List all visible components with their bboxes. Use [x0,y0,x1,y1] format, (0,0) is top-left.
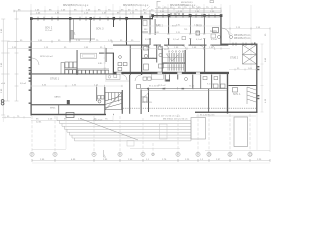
dim line y=28.5 right margin [222,27,270,30]
svg-text:M5/10/5X3,5 cm n.g.v.: M5/10/5X3,5 cm n.g.v. [123,3,149,7]
bottom edge faint line [32,162,270,164]
door opening end ticks [149,34,206,39]
corridor walls x=133,141 [122,90,123,114]
dimension ticks top [14,8,221,16]
stair side walls [162,48,163,72]
wall step connector [152,15,153,19]
small fixture top right [196,31,200,35]
wall y=53 kitchen top [99,53,114,54]
svg-text:6,3 m2: 6,3 m2 [211,39,218,41]
kitchen left wall x=77 [76,50,79,75]
wall x=130 [129,45,132,75]
top annotation leader lines [146,6,233,35]
text specks row under middle rooms [149,86,195,88]
svg-text:SOV. 3: SOV. 3 [96,28,104,31]
lower-left interior: wall x=90.8 [95,87,98,101]
svg-text:M5 3/16x1 1/2" c/c 60 cm n.g.: M5 3/16x1 1/2" c/c 60 cm n.g.v. [150,116,181,118]
staircase [163,53,184,71]
svg-text:5,2 m2: 5,2 m2 [173,39,180,41]
deck horizontal lines [57,117,191,141]
stair mid wall [163,63,185,64]
dimension numbers top row2 [36,11,215,15]
left margin dim text [1,28,3,93]
svg-text:INNG.: INNG. [50,108,56,110]
window ticks on y44 wall [233,43,255,46]
svg-text:WC: WC [144,29,148,31]
top-right wall inner line [153,16,220,18]
deck right rectangle [234,117,248,147]
top small symbol [157,1,214,8]
fixture near top right [213,28,219,33]
dim ticks left of building [2,116,31,118]
dimension text below bottom wall left [36,119,108,124]
vestibule fixtures [137,85,148,103]
gap highlights in band [158,72,163,74]
svg-text:12.61: 12.61 [36,122,42,124]
svg-text:3,9 m2: 3,9 m2 [145,39,152,41]
hall line y=81 [105,80,130,82]
svg-text:9,8 m2: 9,8 m2 [20,83,27,85]
baluster dashed strip [123,107,256,109]
WC room by hall [106,74,120,79]
dining table [81,53,97,58]
kitchen fixtures [61,62,109,74]
svg-text:13,2 m2: 13,2 m2 [158,85,166,87]
mid dimension row right half [130,47,230,50]
fixture room 142-148 [143,21,147,26]
stair hatch bottom right [247,87,256,104]
svg-text:V.F. TERR.: V.F. TERR. [142,102,153,104]
svg-text:95 1.15 55: 95 1.15 55 [149,86,160,88]
interior dim row y=26 [143,25,220,27]
door gaps y45 wall [150,44,154,46]
bottom dimension line [32,159,270,162]
interior dim row y=33.5 [142,32,220,35]
svg-text:KJK.: KJK. [98,63,103,65]
grid bubbles bottom row [30,152,252,156]
exterior wall: top left section [31,18,153,19]
deck diagonal [80,119,138,141]
svg-text:15,2 m2: 15,2 m2 [45,30,53,32]
stairwell wall x129 [129,75,130,114]
svg-text:WC: WC [164,49,168,51]
svg-text:SOV. 1: SOV. 1 [233,93,241,96]
wall stub x=113.5 [113,19,114,27]
stair block lower left [105,93,122,110]
window marks on left wall [29,47,32,104]
rooms below mid band [152,74,221,89]
wall x=221 to 227 upper connector [220,45,228,46]
exterior wall: top right section [152,15,222,16]
closet fill [70,30,73,39]
right margin rotated dims [265,33,267,103]
interior dimension row y=41.5 [8,40,140,43]
bottom dim numbers [40,159,262,161]
vestibule wall x=148.5 [148,89,149,112]
bottom-right fixtures [214,84,238,92]
small step rect deck right end [127,141,134,147]
middle rooms vertical walls [141,15,222,75]
svg-text:95 1.45 95 2.15: 95 1.45 95 2.15 [200,115,215,117]
ticks on y88 line [149,87,194,89]
window ticks on top wall [38,14,215,21]
svg-text:M5/10/5x3,5 cm: M5/10/5x3,5 cm [234,38,250,40]
svg-text:4,1 m2: 4,1 m2 [196,39,203,41]
interior wall y=100.8 left section [31,104,105,105]
wall x=116 [113,53,114,75]
exterior wall: bottom of left section [31,114,114,115]
bottom line of middle rooms [141,87,228,90]
light band across left section y=74 [32,73,113,74]
vertical x=208.5 lower [207,89,210,112]
svg-text:M5/10/5X3,5 cm n.g.v.: M5/10/5X3,5 cm n.g.v. [63,3,89,7]
svg-text:10: 10 [208,153,212,157]
interior dim row y=86 [31,85,122,88]
svg-text:STUE 1: STUE 1 [50,77,60,81]
svg-text:75 95: 75 95 [189,86,195,88]
WC fixtures lower-left [98,96,105,104]
svg-text:SOV. 2: SOV. 2 [45,28,53,30]
right margin dim line x262 [261,44,264,112]
top annotation text row [63,2,196,7]
door arc top right entry [222,28,230,36]
top right room: wall y=44 [222,44,258,45]
wall x=227 right block [227,72,228,114]
secondary bottom dim segments [32,148,270,150]
entrance step box [66,113,74,118]
svg-text:T.R.: T.R. [184,29,188,31]
svg-text:11: 11 [229,153,232,157]
svg-text:SPIS 14,6 m2: SPIS 14,6 m2 [40,56,54,58]
upper room fixtures [182,34,216,40]
svg-text:cm n.g.v.: cm n.g.v. [181,4,190,6]
table inner line [83,54,95,57]
interior wall x=126.5 [126,19,127,46]
svg-text:12: 12 [249,153,253,157]
rooms bottom second line [141,89,227,91]
bathroom fixtures middle [144,47,164,71]
windows on right wall [254,43,259,100]
wardrobe X box right [243,45,257,64]
svg-text:STUE 2: STUE 2 [230,58,239,60]
annotation text right [234,35,250,40]
svg-text:BAD: BAD [150,57,155,60]
wall x=155 upper [154,19,157,35]
svg-text:GANG: GANG [54,96,61,99]
deck mid rectangle [191,118,206,140]
wall x=148.5 [147,45,150,58]
middle rooms fixtures [143,77,218,81]
interior vertical dim chain x=105 [104,45,106,71]
fireplace block [67,100,70,104]
svg-text:M5 3/16x1 1/2" c/c 60 cm: M5 3/16x1 1/2" c/c 60 cm [163,119,188,121]
extension verticals bottom corners [3,113,257,150]
WC mid fixtures [118,56,127,71]
column circles on top wall [168,13,184,52]
interior wall x=70 top-left rooms [70,19,95,42]
extension lines from top dims down [45,5,212,18]
lower-left interior: wall x=103 [104,87,105,114]
bottom wall right block [195,112,258,113]
grid dashed vertical lines [32,114,250,155]
wall y=45 across middle rooms [113,45,222,46]
room m2 labels [145,39,218,41]
exterior wall: left [31,18,32,116]
interior dimension row y=48.5 [8,47,113,49]
mid horizontal dark band [113,72,229,74]
right margin dim line x270 [269,28,271,152]
kitchen right wall x=106 [105,48,108,62]
window ticks below y=89 [147,88,184,89]
extension lines major [31,4,251,70]
door gap bottom wall [106,113,113,115]
closet shelf room 141-150 [142,31,149,33]
vertical divider x=66 lower strip [57,105,60,114]
sub grid tick 4b [104,150,107,157]
dim row y=69.5 right [229,68,257,71]
stair right wall [185,50,186,72]
svg-text:9,1 m2: 9,1 m2 [207,84,214,86]
dim row bottom right block [196,115,256,117]
wall y=53 middle [141,58,157,59]
wall column blocks [30,14,222,20]
deck faint pillar [160,124,168,139]
small circles annotation [218,36,233,39]
left margin grid bubbles [1,100,4,106]
grid bubble numbers [31,153,252,157]
wall y=85.5 right room divider [228,85,256,86]
paper background [0,0,280,164]
svg-text:M5/10/5x3,5 cm: M5/10/5x3,5 cm [234,35,250,37]
corridor wall x141 [141,90,142,115]
dimension numbers top row1 [18,7,217,11]
band door gaps [117,72,122,74]
dimension line top 1 [14,9,222,14]
right exterior wall [256,44,257,113]
door arcs interior [32,30,215,97]
dim line below left [31,119,113,121]
door gaps in upper room walls [149,34,205,39]
hall door arc [122,75,128,81]
left margin dimension line [1,11,18,115]
